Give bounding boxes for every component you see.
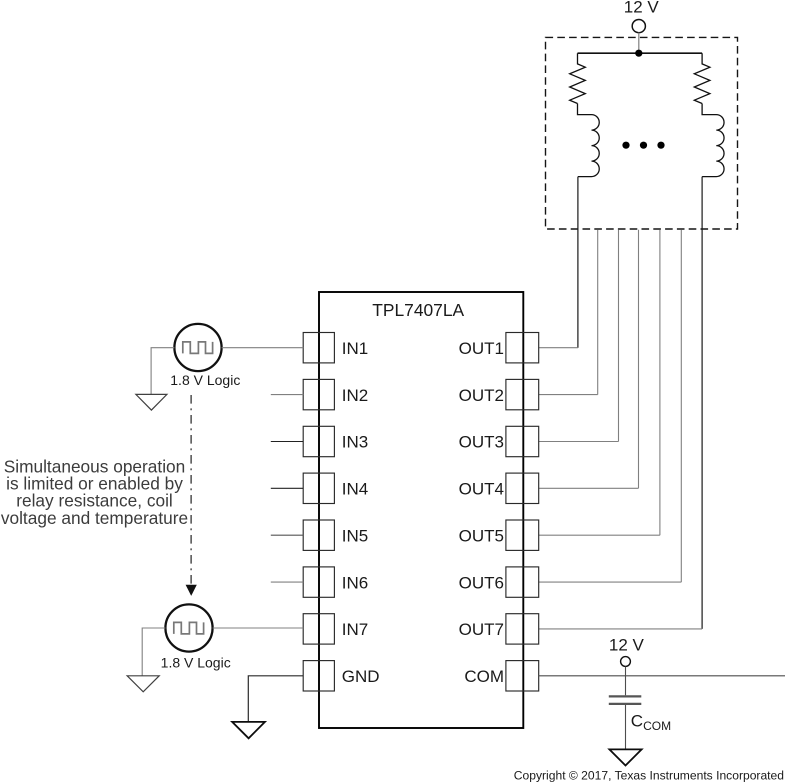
- wire stub IN2: [271, 394, 303, 396]
- pin OUT2 box: [506, 379, 539, 409]
- wire relay stub to OUT5: [659, 230, 661, 536]
- pin OUT3 box: [506, 426, 539, 456]
- wire 12V terminal to junction: [638, 33, 640, 54]
- op IC U1 TPL7407LA body: [319, 292, 523, 728]
- wire OUT6: [539, 581, 681, 583]
- svg-text:1.8 V Logic: 1.8 V Logic: [161, 654, 231, 670]
- wire OUT1 to relay coil 1: [539, 347, 578, 349]
- dash-dot leader line: [190, 395, 192, 585]
- 12 V supply terminal (open circle, COM): [621, 657, 631, 667]
- pin IN1 box: [303, 333, 334, 363]
- wire relay stub to OUT4: [638, 230, 640, 489]
- pin IN7 box: [303, 614, 334, 644]
- wire V2 to IN7: [213, 627, 304, 629]
- svg-text:OUT1: OUT1: [459, 339, 504, 358]
- capacitor CCOM bottom plate: [609, 703, 642, 705]
- svg-text:IN2: IN2: [342, 386, 368, 405]
- pin OUT1 box: [506, 333, 539, 363]
- wire 12V terminal to COM rail and capacitor: [625, 667, 627, 696]
- svg-text:OUT4: OUT4: [459, 480, 504, 499]
- wire V1 to IN1: [222, 347, 304, 349]
- pin OUT5 box: [506, 520, 539, 550]
- wire stub IN3: [271, 441, 303, 443]
- pin IN3 box: [303, 426, 334, 456]
- svg-text:1.8 V Logic: 1.8 V Logic: [170, 372, 240, 388]
- resistor (left relay coil series R): [570, 53, 586, 103]
- wire stub IN5: [271, 534, 303, 536]
- capacitor CCOM top plate: [609, 695, 642, 697]
- svg-text:12 V: 12 V: [609, 636, 645, 655]
- pin IN4 box: [303, 473, 334, 503]
- wire V2 to ground: [142, 628, 165, 676]
- pin OUT6 box: [506, 567, 539, 597]
- svg-text:IN7: IN7: [342, 620, 368, 639]
- pin OUT7 box: [506, 614, 539, 644]
- wire OUT2: [539, 394, 598, 396]
- wire stub IN6: [271, 581, 303, 583]
- 12 V supply terminal (open circle, top): [632, 20, 645, 33]
- ground (GND pin): [232, 722, 265, 738]
- svg-text:OUT2: OUT2: [459, 386, 504, 405]
- square wave symbol V1: [183, 342, 213, 354]
- logic source V1 (1.8 V square-wave source): [174, 324, 221, 371]
- inductor (right relay coil): [702, 104, 724, 177]
- svg-text:OUT7: OUT7: [459, 620, 504, 639]
- pin COM box: [506, 661, 539, 691]
- svg-text:GND: GND: [342, 667, 380, 686]
- svg-text:IN3: IN3: [342, 433, 368, 452]
- pin OUT4 box: [506, 473, 539, 503]
- arrowhead (leader line): [186, 585, 197, 596]
- pin IN5 box: [303, 520, 334, 550]
- svg-text:IN5: IN5: [342, 526, 368, 545]
- ellipsis dots (more relays): [622, 142, 629, 149]
- ground (V1): [136, 394, 167, 410]
- svg-text:Copyright © 2017, Texas Instru: Copyright © 2017, Texas Instruments Inco…: [514, 768, 784, 782]
- wire relay stub to OUT6: [680, 230, 682, 582]
- wire stub IN4: [271, 487, 303, 489]
- svg-text:12 V: 12 V: [624, 0, 660, 17]
- relay box (dashed outline): [546, 37, 738, 229]
- svg-text:IN1: IN1: [342, 339, 368, 358]
- svg-text:COM: COM: [464, 667, 504, 686]
- logic source V2 (1.8 V square-wave source): [165, 604, 212, 651]
- square wave symbol V2: [174, 622, 204, 634]
- ground (CCOM): [609, 749, 641, 765]
- wire right coil terminal down to OUT7: [701, 177, 703, 629]
- wire GND pin to ground: [248, 676, 303, 722]
- svg-text:voltage and temperature: voltage and temperature: [1, 508, 188, 528]
- pin GND box: [303, 661, 334, 691]
- svg-text:TPL7407LA: TPL7407LA: [372, 300, 464, 320]
- wire COM rail: [539, 675, 785, 677]
- node junction dot on top bus: [635, 50, 642, 57]
- wire OUT3: [539, 441, 619, 443]
- wire OUT5: [539, 534, 660, 536]
- svg-text:OUT6: OUT6: [459, 573, 504, 592]
- resistor (right relay coil series R): [694, 53, 710, 103]
- pin IN6 box: [303, 567, 334, 597]
- svg-text:IN6: IN6: [342, 573, 368, 592]
- wire V1 to ground: [151, 348, 174, 394]
- svg-text:IN4: IN4: [342, 480, 368, 499]
- wire relay stub to OUT3: [618, 230, 620, 442]
- pin IN2 box: [303, 379, 334, 409]
- wire OUT4: [539, 487, 639, 489]
- wire left coil terminal down to OUT1: [577, 177, 579, 348]
- svg-text:OUT3: OUT3: [459, 433, 504, 452]
- wire capacitor to ground: [625, 705, 627, 749]
- wire OUT7 to relay coil 2: [539, 628, 702, 630]
- wire relay top bus: [578, 52, 703, 54]
- inductor (left relay coil): [578, 104, 600, 177]
- ground (V2): [127, 676, 159, 692]
- svg-text:OUT5: OUT5: [459, 526, 504, 545]
- wire relay stub to OUT2: [597, 230, 599, 395]
